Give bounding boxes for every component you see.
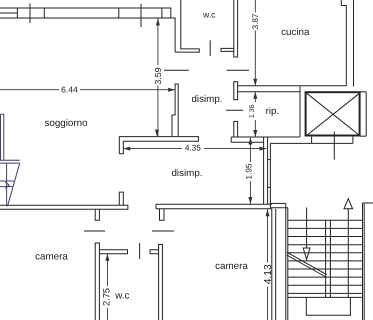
- dimension 4.13 line: [267, 209, 269, 262]
- window W1 right divider: [43, 8, 45, 18]
- svg-text:cucina: cucina: [281, 27, 310, 38]
- svg-text:disimp.: disimp.: [171, 168, 202, 179]
- stairs: up arrow head open triangle: [344, 199, 353, 209]
- svg-text:camera: camera: [215, 261, 248, 272]
- svg-text:soggiorno: soggiorno: [44, 118, 88, 129]
- stairs: up arrow shaft: [347, 209, 349, 298]
- arrow 1.36 top: [253, 92, 257, 99]
- wall divider at x118.8: [118, 8, 120, 18]
- svg-text:w.c: w.c: [114, 291, 129, 302]
- dimension 6.44 line: [0, 89, 59, 91]
- dimension 3.87 line: [254, 0, 256, 12]
- blue stair top double line: [0, 159, 20, 161]
- blue stair hypotenuse: [8, 163, 20, 206]
- wall: rip wall mid segment pair: [234, 82, 238, 100]
- wall: shaft right wall beside elevator: [365, 92, 367, 136]
- door dash camera-left: [84, 230, 105, 232]
- door jamb connector lower: [268, 186, 271, 188]
- arrow 2.75 top: [105, 254, 109, 261]
- wall: nub elevator to right wall: [360, 91, 366, 93]
- svg-text:6.44: 6.44: [61, 85, 78, 95]
- arrow 4.13 top: [266, 209, 270, 216]
- door dash camera-right: [152, 230, 174, 232]
- stairs: steps: [288, 220, 363, 293]
- dimension 1.95 line: [249, 137, 251, 162]
- blue stair shaft: [6, 163, 8, 206]
- svg-text:3.59: 3.59: [153, 67, 163, 84]
- opening dash right cucina door: [227, 69, 250, 71]
- wall: bottom w.c top band right: [150, 250, 159, 254]
- svg-text:w.c: w.c: [202, 10, 216, 20]
- wall: w.c top-left wall inner line with door foot: [175, 0, 199, 52]
- wall: long band left of camera: [0, 205, 128, 209]
- wall: soggiorno bottom band with left door hook: [119, 137, 198, 154]
- wall: corridor top line A: [238, 85, 347, 87]
- wall: stairwell left wall pair: [285, 203, 287, 320]
- dimension 3.59 line: [157, 18, 159, 65]
- arrow 3.87 bottom: [253, 79, 257, 86]
- window W1 left divider: [16, 8, 18, 18]
- arrow 4.35 left: [123, 147, 130, 151]
- wall: cucina right exterior wall outer line: [353, 0, 355, 87]
- arrow 3.59 top: [156, 18, 160, 25]
- elevator diagonal 2: [307, 93, 360, 135]
- stairs: centre stringer pair: [325, 220, 327, 297]
- stairs: down arrow head open triangle: [303, 248, 310, 260]
- wall: corridor top line B: [238, 91, 300, 93]
- stairs: lower landing U outline: [306, 297, 350, 315]
- blue stair arrowhead: [5, 182, 9, 188]
- stairs: cut line double diagonal: [287, 252, 327, 275]
- wall: bottom w.c left wall pair: [95, 243, 99, 320]
- wall: soggiorno door bottom stub: [119, 192, 123, 205]
- door jamb connector upper: [268, 159, 271, 161]
- wall: stairwell right wall pair: [362, 203, 364, 320]
- elevator threshold right jamb: [352, 137, 354, 144]
- svg-text:1.95: 1.95: [245, 163, 254, 179]
- door leaf tick w.c top: [209, 40, 211, 56]
- stairs: down arrow shaft: [306, 208, 308, 249]
- svg-text:4.13: 4.13: [263, 264, 274, 284]
- elevator diagonal 1: [307, 93, 360, 135]
- wall: disimp stem wall pair with top cap and notch: [172, 84, 178, 137]
- wall: top exterior wall bottom line turning into w.c left wall outer line: [0, 18, 175, 52]
- blue stair step line 2: [0, 186, 13, 188]
- blue stair step line 1: [0, 180, 14, 182]
- wall: rip right wall line: [299, 87, 301, 138]
- wall: rip left stub pair: [234, 121, 238, 137]
- arrow 1.95 top: [248, 137, 252, 144]
- svg-text:1.36: 1.36: [249, 104, 256, 118]
- dimension 4.35 line: [123, 148, 182, 150]
- svg-text:2.75: 2.75: [102, 288, 112, 306]
- blue escape stair at left edge: [0, 114, 20, 206]
- wall: bottom w.c top band left: [99, 250, 127, 254]
- door leaf tick bottom w.c: [139, 243, 141, 259]
- wall: w.c right wall pair upper segment: [234, 0, 238, 57]
- svg-text:disimp.: disimp.: [191, 94, 222, 105]
- wall: camera right wall pair to stairwell: [271, 209, 273, 320]
- arrow 3.59 bottom: [155, 130, 159, 137]
- arrow 4.35 right: [260, 147, 267, 151]
- svg-text:3.87: 3.87: [251, 13, 260, 29]
- svg-text:4.35: 4.35: [185, 143, 201, 152]
- elevator threshold left jamb: [311, 137, 313, 144]
- wall: top exterior wall top line with corner down: [0, 8, 171, 18]
- window W2 center tick: [140, 4, 142, 27]
- arrow 1.36 bottom: [253, 130, 257, 137]
- window W1 mid glazing line: [0, 12, 17, 14]
- elevator door centre line: [333, 132, 335, 160]
- dimension 1.36 line: [254, 92, 256, 102]
- wall: lobby left wall pair: [263, 137, 265, 204]
- opening dash left disimp top: [164, 69, 189, 71]
- wall divider near corner: [161, 8, 163, 18]
- wall: soggiorno left wall pair with top cap: [1, 114, 4, 160]
- wall: bottom w.c right wall pair: [159, 244, 163, 320]
- lobby top line / threshold: [270, 142, 353, 144]
- lobby left face line: [269, 143, 271, 208]
- wall: corridor band right portion: [231, 136, 299, 138]
- dimension 2.75 line: [106, 254, 108, 286]
- arrow 1.95 bottom: [248, 197, 252, 204]
- window W1 center tick: [29, 4, 31, 24]
- wall: nub elevator bottom right: [360, 135, 366, 137]
- wall: stairwell right top band: [363, 202, 373, 204]
- arrow 6.44 right: [168, 88, 175, 92]
- wall: cucina right exterior wall inner line with notch: [341, 0, 346, 86]
- svg-text:rip.: rip.: [266, 106, 280, 117]
- elevator shaft box: [306, 92, 360, 135]
- rip door leaf dash: [226, 109, 243, 111]
- wall: camera top band middle: [155, 204, 157, 209]
- band left cap: [230, 137, 232, 142]
- stairs: landing line: [288, 296, 363, 298]
- wall: camera-right door stub down: [160, 209, 165, 220]
- wall: camera-left door stub down: [95, 209, 99, 220]
- wall: w.c top door jamb foot right: [221, 48, 234, 51]
- svg-text:camera: camera: [35, 252, 68, 263]
